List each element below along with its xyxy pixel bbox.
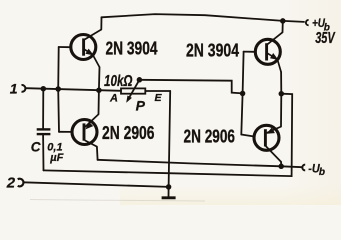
potentiometer R1 body <box>121 88 145 93</box>
wire: T4 collector vertical from output node <box>280 94 282 127</box>
wire: T1 base horizontal <box>59 46 71 48</box>
node: ground junction <box>166 184 172 190</box>
wire: terminal 2 line to ground <box>23 182 168 187</box>
transistor Q3 2N3904 top-right <box>255 32 282 72</box>
wire: T2 emitter vertical to input node <box>98 90 100 114</box>
svg-text:2N 2906: 2N 2906 <box>184 127 236 147</box>
wire: bottom feedback line to right edge vertical and jog to output node <box>44 94 293 176</box>
svg-text:µF: µF <box>49 152 63 164</box>
svg-text:A: A <box>109 92 118 104</box>
wire: T1 base vertical <box>57 47 60 89</box>
terminal -Ub connector <box>302 165 305 171</box>
wire: ground stub <box>168 187 170 197</box>
wire: T3 emitter vertical to output node <box>280 72 282 94</box>
svg-text:2: 2 <box>6 174 16 191</box>
transistor Q1 2N3904 top-left <box>71 30 102 68</box>
ground symbol <box>162 196 176 199</box>
svg-text:2N 3904: 2N 3904 <box>186 41 239 61</box>
svg-text:b: b <box>319 167 325 178</box>
svg-text:2N 3904: 2N 3904 <box>106 39 158 59</box>
terminal 2 connector <box>18 179 24 187</box>
transistor Q4 2N2906 bottom-right <box>254 125 281 162</box>
node: T4 emitter on -Ub line <box>278 164 284 170</box>
terminal +Ub connector <box>306 20 309 25</box>
wire: right bases vertical (T3 base to T4 base) <box>241 52 243 135</box>
svg-text:E: E <box>155 92 163 104</box>
wire: T2 base horizontal <box>59 131 71 133</box>
transistor Q2 2N2906 bottom-left <box>72 114 99 146</box>
wire: capacitor bottom lead <box>42 135 44 170</box>
wire: T2 collector vertical <box>96 147 99 160</box>
wire: T2 base vertical <box>57 89 60 132</box>
wire: wiper to right bases, with jog <box>139 80 242 94</box>
node: output <box>279 91 285 97</box>
wire: pot E lead <box>145 90 170 92</box>
node: bases on input line <box>55 86 61 92</box>
capacitor C1 plates <box>37 128 51 130</box>
svg-text:2N 2906: 2N 2906 <box>102 123 155 143</box>
wire: T3 base horizontal <box>244 51 255 53</box>
svg-text:1: 1 <box>10 80 18 96</box>
node: cap top on input line <box>41 86 47 92</box>
node: emitters / pot A <box>96 87 102 93</box>
potentiometer wiper arrow <box>128 80 139 99</box>
wire: T4 emitter stub to -Ub <box>280 162 282 166</box>
wire: T1 collector vertical <box>100 17 102 29</box>
wire: T1 emitter vertical <box>98 67 101 90</box>
svg-text:35V: 35V <box>315 30 335 47</box>
wire: +Ub top rail <box>102 14 305 22</box>
wire: T4 base horizontal <box>241 135 253 137</box>
wire: pot A lead <box>99 89 121 92</box>
svg-text:10kΩ: 10kΩ <box>104 73 133 90</box>
node: wiper top <box>137 77 143 83</box>
svg-text:C: C <box>31 139 41 154</box>
node: right bases <box>240 91 246 97</box>
wire: -Ub line <box>98 160 303 167</box>
node: T3 collector on +Ub rail <box>280 18 286 24</box>
svg-text:P: P <box>136 97 146 113</box>
wire: pot E vertical to ground <box>169 91 171 187</box>
wire: capacitor top lead <box>42 89 44 129</box>
terminal 1 connector <box>22 85 26 92</box>
faint page bottom edge line <box>30 200 205 202</box>
wire: input line from terminal 1 <box>26 88 99 90</box>
wire: T3 collector vertical <box>282 21 284 32</box>
